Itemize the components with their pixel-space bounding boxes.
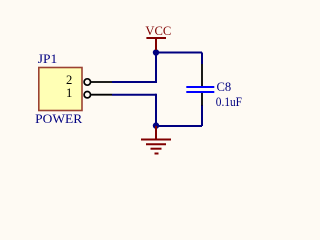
svg-text:1: 1: [66, 86, 72, 100]
svg-text:VCC: VCC: [145, 24, 171, 38]
svg-text:POWER: POWER: [35, 112, 83, 126]
svg-text:0.1uF: 0.1uF: [216, 95, 242, 109]
svg-text:2: 2: [66, 73, 72, 87]
svg-text:C8: C8: [217, 80, 232, 94]
svg-text:JP1: JP1: [38, 52, 58, 66]
